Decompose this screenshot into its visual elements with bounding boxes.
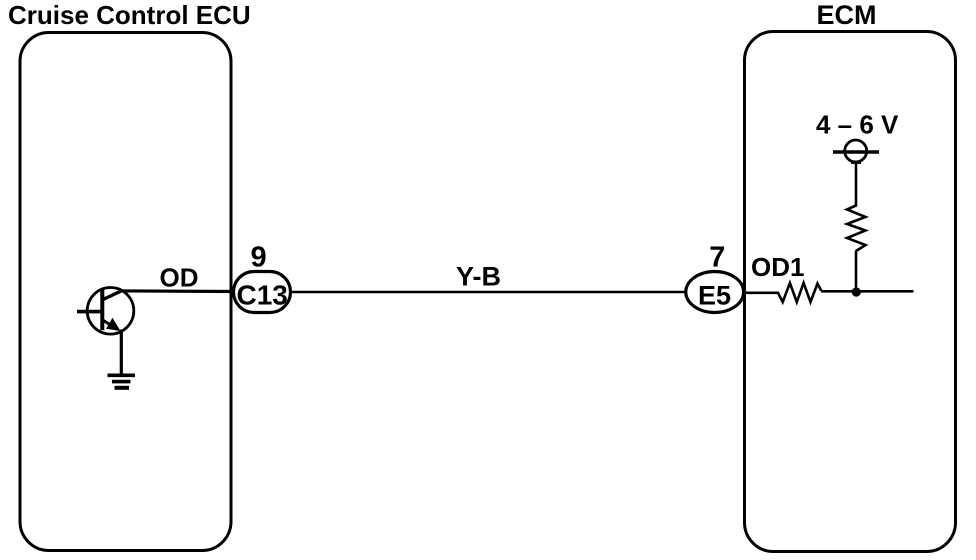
node A [852,287,861,296]
transistor Q1 [77,288,134,335]
svg-text:ECM: ECM [817,0,877,30]
svg-text:4 – 6 V: 4 – 6 V [816,110,899,140]
ground [108,375,136,388]
connector E5 [686,272,744,313]
connector C13 [234,272,291,313]
svg-text:9: 9 [251,241,267,273]
svg-text:C13: C13 [237,279,288,310]
resistor R1 [778,283,821,302]
box ECM [745,32,956,552]
svg-text:Cruise Control ECU: Cruise Control ECU [8,0,251,30]
wire Y-B: C13 to E5 [291,291,686,294]
svg-text:7: 7 [709,241,725,273]
wire OD: transistor collector to C13 [119,289,234,293]
wire resistor R1 to box edge [821,290,914,293]
resistor R2 [847,204,866,251]
svg-text:OD1: OD1 [751,252,804,282]
svg-text:Y-B: Y-B [456,262,501,292]
voltage source 4-6V [833,140,879,162]
wire node to resistor R2 [855,251,858,293]
wire R2 to voltage source [855,163,858,206]
box Cruise Control ECU [20,33,231,551]
wire E5 to resistor R1 [745,291,779,294]
wire emitter to ground [120,330,123,375]
svg-text:OD: OD [160,263,199,293]
svg-text:E5: E5 [698,280,731,310]
